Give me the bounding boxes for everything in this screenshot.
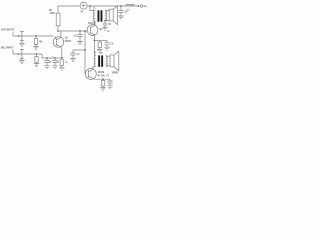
wire input2 corner down to rail (41, 54, 43, 58)
ground under C4 (70, 58, 76, 61)
resistor R2 shunt (34, 39, 37, 45)
node junction rail c (61, 57, 63, 59)
resistor R3 shunt (35, 57, 38, 63)
wire J1 down (35, 36, 37, 39)
label C6 text (110, 43, 114, 45)
wire T2 primary bottom to Q3 collector (93, 67, 96, 70)
wire top rail left corner (58, 6, 80, 13)
ground under R6 (59, 67, 65, 70)
transformer T1 core (98, 10, 100, 21)
ground under C8 (118, 16, 124, 19)
ground under VR2 (19, 61, 25, 64)
node junction J2 (36, 53, 38, 55)
ground under C6 (104, 47, 110, 50)
wire C5 to ground (104, 25, 106, 27)
svg-text:SPKR: SPKR (112, 72, 118, 74)
transformer T1 label (93, 8, 96, 10)
wire tap to C4 (73, 50, 85, 53)
svg-text:1M: 1M (39, 42, 42, 44)
wire leader input2 (12, 50, 14, 55)
transistor Q2 (87, 25, 98, 36)
wire R7 to ground (102, 86, 104, 87)
battery M1 circle (80, 2, 87, 9)
node collector Q1 (57, 30, 59, 32)
node junction tap C4 (84, 49, 86, 51)
wire down to C3 (79, 31, 81, 34)
capacitor C6 (104, 43, 109, 45)
node junction emitter Q3 (102, 78, 104, 80)
svg-text:ANT INPUT: ANT INPUT (1, 28, 15, 32)
wire T2 secondary to speaker LS2 (106, 56, 110, 66)
svg-text:B+: B+ (144, 4, 148, 8)
node junction C5 (104, 20, 106, 22)
capacitor C7 (107, 81, 112, 83)
potentiometer VR1 wiper arrow (18, 35, 21, 37)
wire rail from battery (87, 5, 138, 7)
resistor R5 (98, 42, 101, 48)
wire leader input1 (12, 32, 14, 37)
wire long vertical to Q3 base (84, 31, 87, 74)
wire R5 to ground (99, 48, 101, 50)
wire T1 secondary to speaker LS1 (105, 11, 109, 21)
wire R4 to collector node (57, 26, 59, 31)
resistor R6 (60, 60, 63, 66)
capacitor C4 (70, 53, 75, 55)
node junction rail C8 (120, 5, 122, 7)
wire C7 to ground (109, 83, 111, 85)
wire C1 to ground (46, 63, 48, 66)
svg-text:220K: 220K (50, 12, 56, 15)
wire T1 primary to Q2 collector (94, 21, 96, 25)
capacitor C8 (118, 11, 123, 13)
svg-text:R7 100: R7 100 (98, 76, 106, 78)
wire C8 to ground (120, 13, 122, 16)
wire emitter rail Q1 (42, 57, 64, 59)
svg-text:MIC INPUT: MIC INPUT (1, 46, 14, 50)
svg-text:6V: 6V (80, 11, 83, 14)
node terminal dot (137, 5, 139, 7)
svg-text:2N107: 2N107 (65, 41, 72, 43)
label Q3 text (98, 72, 110, 77)
transformer T1 secondary coil (105, 10, 107, 21)
label Q1 text (65, 37, 72, 43)
wire down to C8 (120, 6, 122, 10)
wire Q1 emitter down (61, 47, 63, 58)
wire R6 to ground (61, 66, 63, 68)
wire down to R7 (102, 79, 104, 80)
label C3 text (74, 35, 78, 37)
node junction emitter Q2 (94, 40, 96, 42)
label LS2 text (112, 72, 118, 74)
node junction J1 (35, 35, 37, 37)
node junction rail b (54, 57, 56, 59)
ground under R3 (34, 64, 40, 67)
value labels C1 C2 R6 text (49, 55, 68, 64)
node label INPUT1 text (1, 28, 15, 32)
wire Q2 collector to T1 (93, 21, 96, 25)
wire input2 to pot VR2 (13, 53, 42, 55)
capacitor C1 (44, 61, 49, 63)
wire down to T1 primary (90, 6, 95, 10)
wire input1 to pot R1 (13, 35, 54, 37)
transistor Q1 (53, 37, 64, 48)
wire down to C7 (109, 79, 111, 81)
transformer T2 primary coil (94, 56, 96, 67)
label B+ text (144, 4, 148, 8)
transformer T1 primary coil (93, 10, 95, 21)
ground under C5 (102, 28, 107, 31)
wire J2 down (36, 54, 38, 57)
potentiometer VR2 (20, 49, 24, 58)
transformer T2 core (98, 55, 100, 66)
wire VR2 to ground (21, 59, 23, 61)
potentiometer VR1 (20, 31, 24, 40)
wire T2 primary top link (94, 55, 95, 57)
label C8 text (125, 11, 129, 13)
wire Q3 emitter right (94, 78, 110, 80)
node junction rail T1 (89, 5, 91, 7)
transformer T2 secondary coil (106, 56, 108, 67)
ground under R5 (97, 49, 103, 52)
ground under C7 (107, 86, 113, 89)
wire node to Q2 base (58, 30, 87, 32)
ground under C1 (44, 66, 50, 69)
ground under VR1 (19, 43, 25, 46)
label C5 text (107, 24, 112, 33)
wire C2 to ground (54, 63, 56, 66)
potentiometer VR2 wiper arrow (18, 53, 21, 55)
label R4 text (49, 9, 55, 15)
label C4 text (77, 53, 81, 56)
wire down to R5 (99, 41, 101, 43)
wire down to C5 (104, 21, 106, 23)
transistor Q3 (85, 69, 96, 80)
ground under R2 (33, 46, 39, 49)
svg-text:2N109: 2N109 (98, 72, 105, 74)
ground under C3 (77, 41, 83, 44)
capacitor C5 (103, 23, 107, 25)
wire Q1 collector up (60, 31, 62, 37)
label Q2 text (88, 23, 103, 31)
inductor L1 (126, 4, 134, 6)
wire R2 to ground (35, 44, 37, 46)
wire VR1 to ground (21, 41, 23, 44)
speaker LS1 (109, 9, 113, 21)
value label R2 (39, 42, 42, 44)
label battery polarity text (80, 1, 83, 13)
node label INPUT2 text (1, 46, 14, 50)
node junction rail a (46, 57, 48, 59)
wire C6 to ground (106, 45, 108, 47)
speaker LS2 (110, 55, 114, 67)
label L1 text (127, 10, 130, 12)
wire R3 to ground (36, 62, 38, 63)
wire Q2 emitter down to T2 (93, 35, 95, 56)
node junction base feed (84, 30, 86, 32)
capacitor C3 (77, 35, 82, 37)
wire down to C1 (46, 58, 48, 60)
wire C3 to ground (79, 37, 81, 42)
node junction coupling (79, 30, 81, 32)
ground under R7 (100, 87, 106, 90)
transformer T2 label (93, 53, 103, 55)
ground under C2 (52, 66, 58, 69)
capacitor C2 (52, 61, 57, 63)
wire down to C2 (54, 58, 56, 60)
wire down to C6 (106, 41, 108, 43)
wire C4 to ground (72, 55, 74, 58)
resistor R7 (101, 80, 104, 86)
terminal B+ (139, 5, 140, 7)
wire emitter node right (94, 40, 107, 42)
resistor R4 (56, 13, 60, 26)
